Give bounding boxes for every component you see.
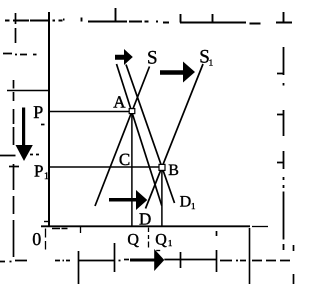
left dashes y=53.5 [3,54,37,55]
left border x=13 column [13,80,15,257]
svg-text:B: B [168,162,179,179]
tick below axis x=80 [80,227,82,233]
right dash-dot border x=283 [277,47,284,250]
node A marker [129,109,135,114]
svg-text:P: P [33,102,43,122]
svg-text:P: P [34,161,43,180]
vertical from B to Q1 [161,168,163,226]
svg-text:D: D [139,209,151,228]
svg-text:1: 1 [209,58,214,68]
svg-text:S: S [147,48,158,69]
tick on axis y=221 [44,221,49,223]
dashlet below P [41,124,45,126]
price line P1 to B [50,166,162,168]
horizontal dash-dot y=155 [0,155,39,156]
svg-text:Q: Q [155,231,167,248]
vertical price axis [48,12,50,227]
svg-text:A: A [113,93,126,112]
svg-text:1: 1 [191,201,196,211]
supply curve S1 [146,64,204,209]
demand curve D1 [126,65,175,204]
bold arrow S1 shift (long top) [160,62,195,83]
horizontal mark y=90 [7,90,49,92]
bottom dash-dot border line [0,228,294,284]
node B marker [159,164,165,170]
svg-text:1: 1 [44,171,49,182]
svg-text:C: C [119,150,130,169]
top dash-dot border line [5,8,292,24]
bold arrow Q shift (bottom) [130,249,164,271]
supply curve S [95,67,150,207]
left dash-dot vertical border x=15.5 top [0,13,49,257]
dashed axis-column continuation below [45,229,47,250]
vertical from A to Q [131,112,133,226]
svg-text:1: 1 [168,238,173,248]
dash below Q1 [156,250,160,252]
svg-text:Q: Q [127,232,139,249]
bold arrow D shift (middle) [109,190,147,210]
svg-text:0: 0 [32,229,41,249]
tick on x=13 column at P1 level [9,166,19,168]
svg-text:D: D [180,194,192,211]
bold down arrow P fall [16,108,33,162]
horizontal quantity axis [41,225,250,227]
dashed column x=148 below axis [148,228,150,248]
bold arrow S shift (small top) [115,49,133,65]
axis dash continuation right [252,226,268,228]
doubling dashes under axis left [52,228,68,230]
demand curve D [117,64,162,206]
price line P to A [50,111,132,113]
